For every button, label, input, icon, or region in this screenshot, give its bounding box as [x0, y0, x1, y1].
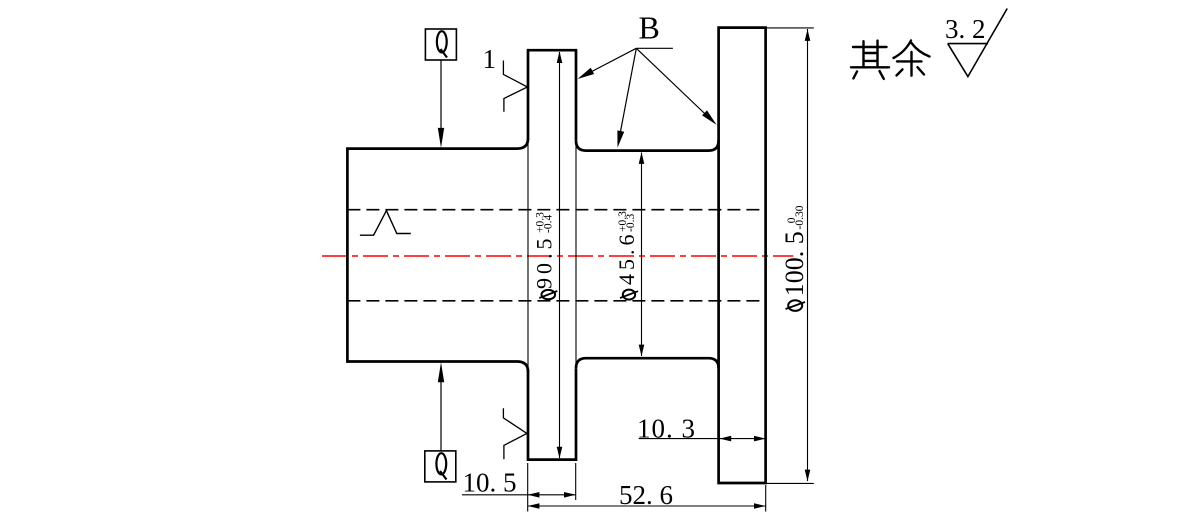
dimension 10.3 line: [639, 438, 766, 440]
Q glyph (top box): [437, 31, 447, 57]
svg-text:45.6: 45.6: [614, 231, 639, 286]
svg-text:10. 3: 10. 3: [637, 414, 696, 444]
datum target box Q (bottom): [425, 451, 456, 482]
surface roughness symbol (triangle check): [948, 9, 1008, 77]
centerline (red dash-dot axis): [322, 255, 793, 257]
svg-text:10. 5: 10. 5: [463, 467, 517, 497]
part outline: neck (middle section) with fillets: [576, 141, 719, 369]
hidden line upper (dashed bore line): [347, 209, 765, 211]
svg-text:-0.30: -0.30: [794, 205, 806, 229]
arrowhead φ45.6 top: [639, 152, 645, 164]
svg-text:100. 5: 100. 5: [780, 231, 809, 296]
surface roughness tick mark (upper, on flange1 left edge): [503, 61, 527, 112]
extension line below flange1 right: [575, 463, 577, 500]
arrowhead 10.3 left: [720, 436, 732, 442]
flange 2 left edge through neck band (thick): [717, 140, 720, 369]
leader B to neck surface: [619, 48, 637, 142]
datum target box Q (top): [425, 29, 456, 60]
surface roughness tick mark (lower, on flange1 left edge): [503, 408, 527, 459]
extension line below flange1 left: [527, 463, 529, 512]
arrowhead bottom Q leader: [438, 362, 444, 382]
arrowhead φ90.5 bottom: [557, 447, 563, 459]
arrowhead φ100.5 top: [805, 29, 811, 41]
arrowhead φ90.5 top: [557, 51, 563, 63]
svg-text:-0.3: -0.3: [625, 214, 637, 232]
svg-text:52. 6: 52. 6: [619, 480, 673, 510]
leader B to flange2 left edge: [636, 48, 712, 120]
svg-text:-0.4: -0.4: [543, 215, 555, 233]
flange 1 left edge seen through shaft (thin): [527, 140, 529, 371]
arrowhead 10.3 right: [754, 436, 766, 442]
part outline: left shaft with fillets into flange 1: [347, 139, 528, 372]
svg-text:3. 2: 3. 2: [945, 14, 986, 44]
part outline: flange 2 (right disc): [719, 28, 766, 483]
dimension φ45.6 line: [641, 153, 643, 357]
arrowhead B leader 2: [617, 130, 624, 147]
dimension φ90.5 line: [559, 52, 561, 458]
arrowhead B leader 3: [702, 110, 717, 125]
arrowhead 52.6 left: [528, 503, 540, 509]
dimension text φ100.5 0/-0.30: [780, 205, 809, 296]
note 其余 (Chinese: "rest/others") drawn as strokes: [851, 41, 930, 79]
leader B to flange1 right edge: [580, 48, 636, 77]
dimension 10.5 line: [462, 494, 576, 496]
dimension 52.6 line: [528, 505, 766, 507]
extension line top right (for φ100.5): [766, 27, 814, 29]
svg-text:1: 1: [483, 44, 497, 74]
arrowhead 10.5 left: [528, 492, 540, 498]
arrowhead φ45.6 bottom: [639, 345, 645, 357]
flange 1 right edge seen through neck (thin): [575, 141, 577, 368]
underline of label B: [636, 47, 673, 49]
dimension φ100.5 line: [807, 29, 809, 481]
arrowhead 52.6 right: [754, 503, 766, 509]
dimension text φ90.5 +0.3/-0.4: [532, 212, 557, 289]
svg-text:90.5: 90.5: [532, 235, 557, 290]
svg-text:B: B: [639, 10, 660, 46]
extension line bottom right (for φ100.5): [766, 482, 814, 484]
arrowhead φ100.5 bottom: [805, 470, 811, 482]
dimension text φ45.6 +0.3/-0.3: [614, 211, 639, 285]
hidden line lower (dashed bore line): [347, 300, 765, 302]
leader from bottom Q box: [440, 378, 442, 451]
leader from top Q box: [440, 60, 442, 132]
arrowhead 10.5 right: [564, 492, 576, 498]
part outline: flange 1 (left disc): [528, 50, 576, 459]
arrowhead top Q leader: [438, 128, 444, 148]
extension line below flange2 right: [765, 485, 767, 512]
Q glyph (bottom box): [436, 453, 446, 479]
arrowhead B leader 1: [578, 68, 595, 79]
thread/relief mark on shaft (caret symbol): [360, 211, 411, 236]
